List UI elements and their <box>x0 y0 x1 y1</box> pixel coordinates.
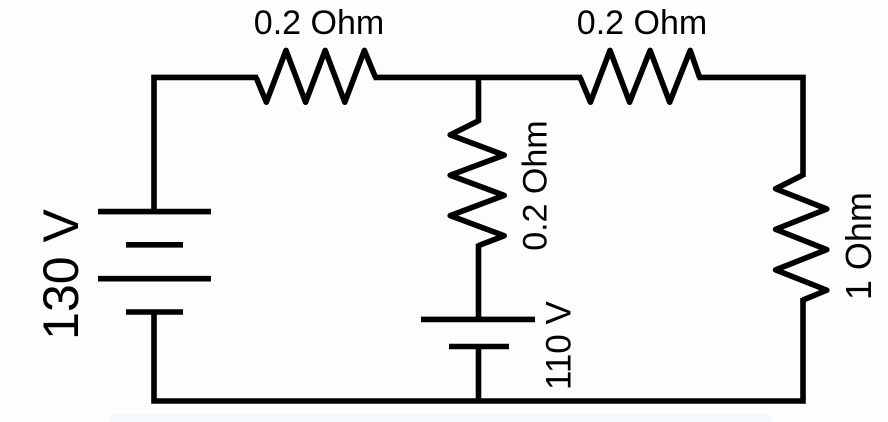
svg-text:0.2 Ohm: 0.2 Ohm <box>254 4 384 42</box>
battery V2 110 V (long positive plate and short negative plate) <box>421 317 535 323</box>
wire: R2 right terminal to top-right corner to R4 top terminal <box>698 77 803 177</box>
wire: battery V1 top plate to top-left corner to R1 left terminal <box>154 77 258 211</box>
svg-text:130 V: 130 V <box>33 209 89 340</box>
wire: battery V2 bottom plate to bottom-wire junction <box>476 347 482 402</box>
wire: R4 bottom terminal to bottom-right corner, along bottom to bottom-left corner, up to battery V1 bottom plate <box>154 298 803 401</box>
resistor R4 1 Ohm (right branch) <box>776 175 827 300</box>
wire: R1 right terminal through top-middle junction to R2 left terminal <box>374 75 583 81</box>
svg-text:110 V: 110 V <box>540 301 579 391</box>
svg-text:1 Ohm: 1 Ohm <box>838 192 879 300</box>
resistor R2 0.2 Ohm (top right) <box>580 50 700 102</box>
faint watermark band at bottom <box>110 414 772 422</box>
svg-text:0.2 Ohm: 0.2 Ohm <box>517 120 555 250</box>
resistor R1 0.2 Ohm (top left) <box>256 50 375 102</box>
resistor R3 0.2 Ohm (middle branch) <box>450 121 504 246</box>
battery V1 130 V (two cells: long plate, short plate, long plate, short plate) <box>98 209 211 215</box>
wire: R3 bottom terminal to battery V2 top plate <box>476 244 482 320</box>
svg-text:0.2 Ohm: 0.2 Ohm <box>577 4 707 42</box>
wire: top-middle junction down to R3 top terminal <box>476 77 482 122</box>
